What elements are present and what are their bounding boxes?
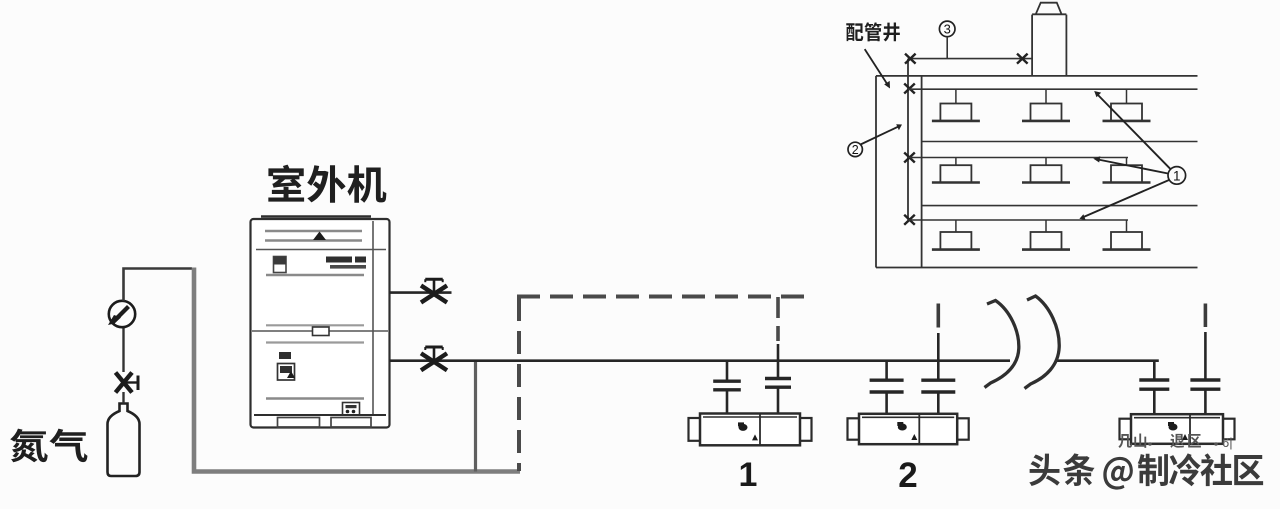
building: floor 2 slab: [922, 141, 1198, 143]
branch joint: unit 2 gas: [921, 379, 955, 382]
ceiling unit floor1-3: [1126, 89, 1128, 103]
pressure gauge: [108, 301, 135, 327]
floor 1 branch pipe: [908, 88, 1198, 90]
svg-text:3: 3: [944, 22, 951, 37]
ceiling unit floor1-2: [1045, 89, 1047, 103]
ceiling unit floor3-3: [1126, 220, 1128, 232]
svg-text:1: 1: [1173, 168, 1181, 183]
svg-text:2: 2: [898, 456, 917, 495]
branch joint: unit 3 gas: [1190, 378, 1220, 381]
building: outer wall: [875, 76, 877, 268]
cut mark X (floor 3): [904, 215, 915, 225]
cut mark X (dim right): [1017, 54, 1028, 64]
gas service valve: [421, 279, 447, 302]
wire: cylinder to valve: [122, 392, 124, 404]
ceiling unit floor2-1: [955, 158, 957, 166]
wire: thick gray nitrogen hose (down, along bottom): [194, 268, 520, 472]
wire: dashed gas drop to nitrogen hose: [517, 298, 521, 471]
indoor unit 2: [848, 414, 969, 444]
watermark: 头条 @制冷社区: [1029, 453, 1263, 489]
callout circle 2: [848, 142, 862, 156]
arrow 1 to floor1 pipe: [1098, 95, 1171, 170]
callout circle 1: [1168, 167, 1186, 185]
riser pipe in shaft: [907, 59, 909, 220]
branch joint: unit 2 liquid: [885, 361, 888, 381]
wire: dashed gas header (horizontal): [517, 295, 806, 299]
building: bottom slab: [876, 267, 1198, 269]
watermark fragment over unit 3: [1118, 433, 1232, 450]
chimney: [1031, 15, 1033, 76]
wire: valve to gauge: [122, 328, 124, 373]
building: roof slab: [876, 75, 1198, 77]
label: pipe shaft (配管井): [846, 22, 900, 41]
svg-text:2: 2: [852, 143, 859, 157]
liquid service valve: [421, 347, 447, 370]
ceiling unit floor2-2: [1045, 158, 1047, 166]
building: shaft inner wall: [921, 76, 923, 268]
building: floor 3 slab: [922, 205, 1198, 207]
indoor unit 3: [1120, 414, 1235, 444]
ceiling unit floor1-1: [955, 89, 957, 103]
nitrogen cylinder: [108, 404, 140, 477]
arrow 1 to floor3 pipe: [1084, 180, 1170, 217]
label: nitrogen (氮气): [10, 429, 87, 463]
cylinder shut-off valve: [116, 373, 139, 393]
cut mark X (floor 2): [904, 153, 915, 163]
branch joint: unit 3 liquid: [1153, 361, 1156, 380]
floor 3 branch pipe: [908, 219, 1128, 221]
pipe break mark (right curve): [1025, 296, 1060, 389]
wire: liquid main pipe: [390, 359, 1011, 362]
wire: unit 2 gas drop: [936, 304, 940, 328]
wire: unit 1 gas drop (dashed then solid): [776, 297, 780, 341]
branch joint: unit 1 liquid: [726, 361, 729, 382]
dimension line (3): [908, 58, 1032, 60]
cut mark X (floor 1): [904, 84, 915, 94]
pipe break mark (left curve): [985, 301, 1019, 388]
callout circle 3: [939, 21, 955, 37]
arrow 1 to floor2 pipe: [1098, 160, 1168, 174]
svg-text:6|: 6|: [1222, 435, 1233, 450]
wire: unit 3 gas drop: [1204, 304, 1208, 328]
wire: gauge up and over to gray riser: [124, 269, 193, 301]
cut mark X (dim left): [905, 54, 916, 64]
branch joint: unit 1 gas: [765, 377, 791, 380]
indoor unit 1: [689, 414, 812, 446]
floor 2 branch pipe: [908, 157, 1128, 159]
ceiling unit floor3-2: [1045, 220, 1047, 232]
leader arrow from pipe shaft label: [865, 49, 888, 84]
wire: riser from bottom hose to liquid pipe tee: [474, 361, 477, 472]
svg-text:1: 1: [739, 456, 758, 494]
outdoor unit cabinet: [251, 217, 390, 428]
wire: gas pipe stub from cabinet: [390, 291, 452, 294]
label: outdoor unit (室外机): [268, 165, 386, 203]
ceiling unit floor2-3: [1126, 158, 1128, 166]
ceiling unit floor3-1: [955, 220, 957, 232]
